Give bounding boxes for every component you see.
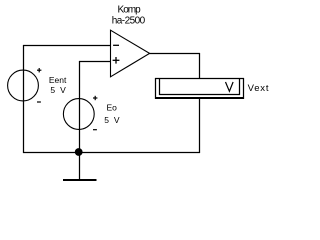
svg-text:ha-2500: ha-2500	[112, 16, 146, 27]
wire	[23, 152, 200, 154]
source Eo	[63, 99, 94, 130]
op-amp minus input label	[113, 44, 119, 46]
node junction	[75, 148, 83, 156]
svg-text:Eent: Eent	[49, 75, 67, 85]
wire	[23, 45, 25, 153]
wire	[199, 99, 201, 153]
svg-text:5 V: 5 V	[50, 85, 66, 95]
svg-text:Vext: Vext	[248, 83, 270, 94]
wire	[23, 45, 111, 47]
ground	[63, 152, 97, 180]
wire	[79, 61, 81, 153]
svg-text:Komp: Komp	[118, 5, 142, 16]
voltmeter V needle glyph	[226, 82, 234, 91]
svg-text:Eo: Eo	[107, 103, 118, 113]
op-amp plus input label	[113, 57, 120, 64]
svg-text:5 V: 5 V	[104, 115, 120, 125]
Eent plus	[37, 68, 41, 72]
Eo minus	[93, 129, 97, 131]
wire	[79, 61, 111, 63]
voltmeter Vext outer box	[155, 78, 244, 99]
Eo plus	[93, 96, 97, 100]
wire	[199, 53, 201, 79]
wire	[150, 53, 201, 55]
Eent minus	[37, 101, 41, 103]
op-amp U1 comparator	[111, 30, 150, 77]
voltmeter inner box	[159, 79, 240, 96]
source Eent	[8, 70, 39, 101]
